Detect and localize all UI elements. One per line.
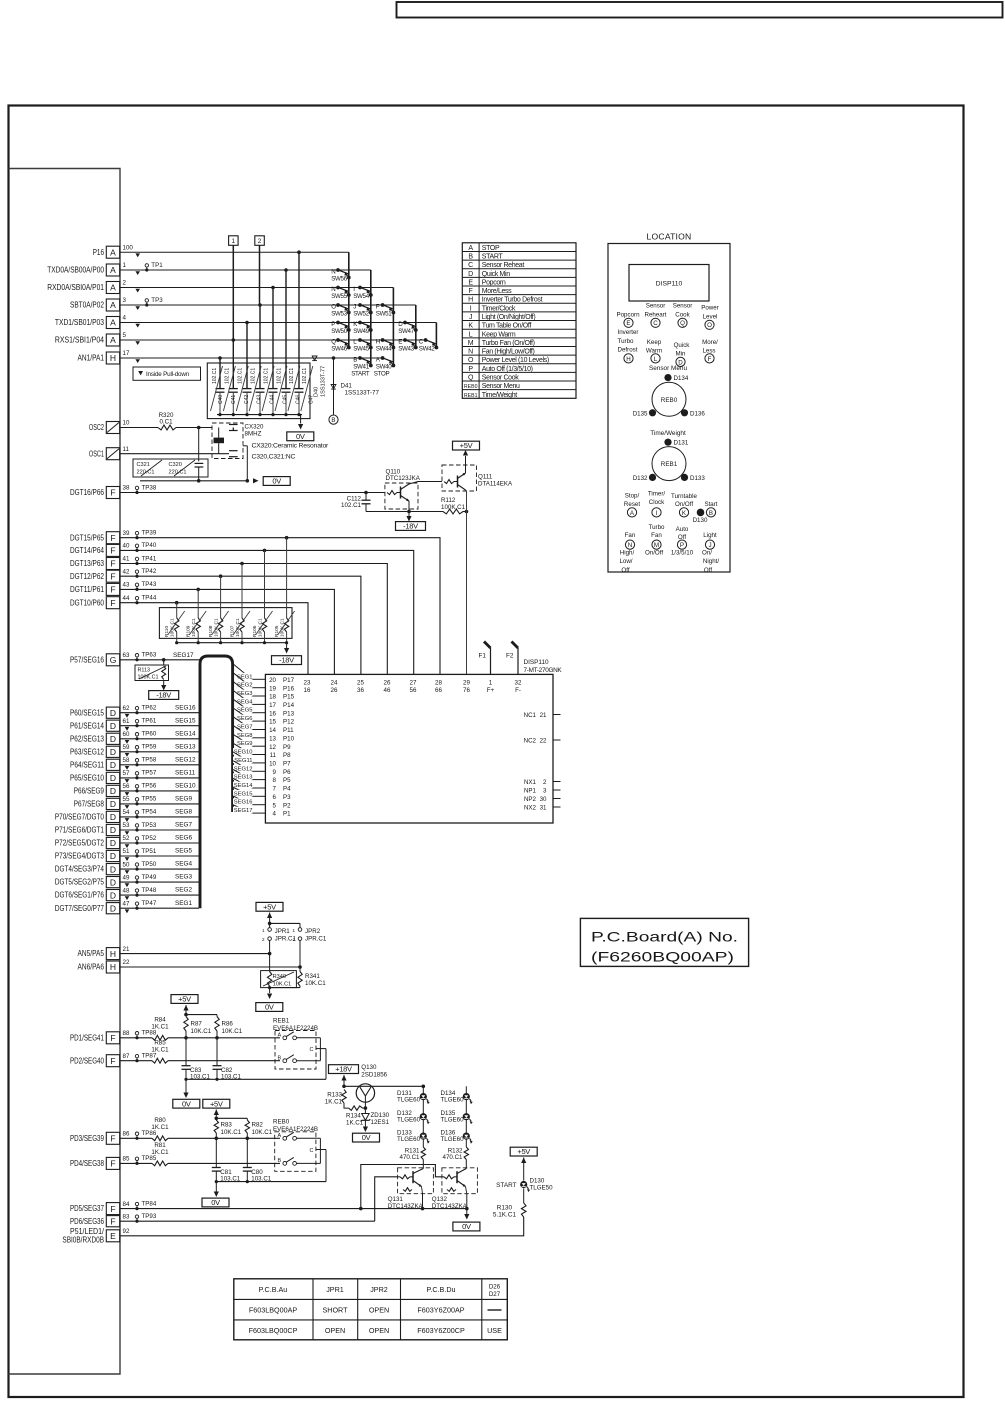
resistor R134 1K.C1 [346,1106,367,1127]
svg-text:TP51: TP51 [142,848,157,855]
svg-text:SEG15: SEG15 [175,717,196,724]
0V supply (REB0) [202,1198,229,1207]
svg-text:102.C1: 102.C1 [251,368,257,384]
svg-text:2: 2 [292,937,295,942]
svg-text:TP84: TP84 [142,1200,157,1207]
svg-text:B: B [468,254,473,261]
wire PD1 row + TP88 + R84 [120,1017,280,1041]
wire oscillator ground bus [140,446,259,484]
svg-text:P73/SEG4/DGT3: P73/SEG4/DGT3 [55,852,105,861]
svg-text:R130: R130 [497,1204,513,1211]
button B Start + LED D130 [693,501,718,524]
wire SEG6 row TP52 [120,835,199,845]
svg-text:102.C1: 102.C1 [289,368,295,384]
svg-text:Q130: Q130 [361,1064,377,1071]
svg-text:0V: 0V [362,1133,371,1142]
wire SEG9 fan-out [233,734,266,747]
svg-text:1SS133T-77: 1SS133T-77 [321,366,327,397]
svg-text:P.C.B.Au: P.C.B.Au [259,1285,288,1294]
svg-text:4: 4 [273,811,277,818]
pin 38 DGT16/P66 [70,485,130,499]
resistor R320 0.C1 [158,412,176,430]
svg-text:D134: D134 [674,375,689,382]
svg-text:57: 57 [123,770,130,777]
svg-text:36: 36 [357,687,364,694]
svg-text:D: D [110,708,116,718]
svg-text:A: A [110,300,116,310]
wire SEG11 fan-out [233,752,266,764]
wire DGT10/P60 row to DISP110 grid [120,595,308,675]
svg-text:TLGE50: TLGE50 [530,1184,554,1191]
svg-text:PD3/SEG39: PD3/SEG39 [70,1134,104,1143]
svg-text:P.C.Board(A) No.: P.C.Board(A) No. [591,930,738,945]
svg-text:P57/SEG16: P57/SEG16 [70,655,104,664]
svg-text:SHORT: SHORT [322,1306,348,1315]
diode D40 1SS133T-77 [312,356,326,397]
svg-text:NC2: NC2 [524,737,537,744]
wire P00 key row + TP1 [120,262,371,367]
button J Light On/Night/Off [702,532,719,574]
button A Stop/Reset [624,492,640,517]
svg-text:TP87: TP87 [142,1053,157,1060]
svg-text:JPR2: JPR2 [370,1285,388,1294]
svg-text:SW43: SW43 [398,346,415,353]
svg-text:31: 31 [540,804,547,811]
svg-text:+5V: +5V [517,1147,530,1156]
SEG bus (thick) [200,656,233,908]
svg-text:26: 26 [331,687,338,694]
svg-text:17: 17 [269,702,276,709]
svg-text:Time/Weight: Time/Weight [482,392,517,399]
svg-text:B: B [278,1158,282,1164]
svg-text:TP88: TP88 [142,1030,157,1037]
svg-text:F: F [110,571,115,581]
svg-text:More/Less: More/Less [482,288,512,295]
pin 41 DGT13/P63 [70,556,130,570]
svg-text:12: 12 [269,744,276,751]
svg-text:Power: Power [701,305,719,312]
svg-text:C320: C320 [169,462,182,468]
svg-text:10: 10 [269,761,276,768]
switch SW42 (C) [419,338,439,353]
wire jumper feed [268,922,300,928]
svg-text:TP1: TP1 [151,262,163,269]
svg-text:M: M [468,340,474,347]
svg-text:START: START [482,254,504,261]
svg-text:63: 63 [123,652,130,659]
svg-text:D: D [110,825,116,835]
resistor R133 1K.C1 [325,1090,349,1109]
+5V supply (REB1 pull-ups) [171,995,198,1015]
svg-text:PD5/SEG37: PD5/SEG37 [70,1204,104,1213]
wire SEG12 row TP58 [120,756,199,766]
svg-text:N: N [331,269,335,276]
wire OSC2 node [120,426,212,462]
svg-text:On/Off: On/Off [675,501,693,508]
display DISP110 7-MT-270GNK [265,659,562,823]
svg-text:D: D [110,851,116,861]
pin 63 P57/SEG16 [70,652,130,666]
svg-text:L: L [353,339,357,346]
svg-text:Sensor Cook: Sensor Cook [482,375,519,382]
svg-text:D135: D135 [633,411,648,418]
svg-text:+5V: +5V [460,441,473,450]
svg-text:SEG14: SEG14 [175,730,196,737]
svg-text:Keep: Keep [647,339,662,346]
switch SW53 (O) [331,303,350,318]
svg-text:9: 9 [273,769,277,776]
svg-text:F2: F2 [506,653,514,660]
wire SEG12 fan-out [233,761,266,773]
pin 2 RXD0A/SBI0A/P01 [47,280,140,294]
svg-text:F: F [110,559,115,569]
svg-text:C: C [468,262,473,269]
button O Power Level [701,305,719,330]
svg-text:F: F [110,488,115,498]
svg-text:1SS133T-77: 1SS133T-77 [345,390,380,397]
svg-text:D: D [110,877,116,887]
svg-text:Inverter: Inverter [618,329,639,336]
svg-text:6: 6 [273,794,277,801]
svg-text:E: E [110,1231,116,1241]
svg-text:11: 11 [270,752,277,759]
svg-text:2: 2 [543,779,547,786]
svg-text:D: D [468,271,473,278]
svg-text:100K.C1: 100K.C1 [138,675,159,681]
svg-text:LOCATION: LOCATION [647,232,692,242]
svg-text:0V: 0V [462,1222,471,1231]
svg-text:P: P [468,366,473,373]
svg-text:5.1K.C1: 5.1K.C1 [493,1212,517,1219]
svg-text:ZD130: ZD130 [371,1112,390,1119]
svg-text:R86: R86 [222,1020,234,1027]
pin 57 P65/SEG10 [70,770,130,783]
svg-text:START: START [496,1182,516,1189]
svg-text:TLGE60: TLGE60 [397,1096,421,1103]
svg-text:10K.C1: 10K.C1 [252,1129,273,1136]
svg-text:Turbo: Turbo [618,338,634,345]
svg-text:0V: 0V [272,477,281,486]
svg-text:-18V: -18V [279,656,294,665]
pin 51 P73/SEG4/DGT3 [55,848,130,861]
svg-text:17: 17 [123,350,130,357]
wire Q110 collector to Q111 base [418,481,442,483]
jumper JPR1 JPR.C1 [262,928,296,954]
svg-text:D: D [110,838,116,848]
svg-text:I: I [353,286,355,293]
switch SW44 (H) [376,338,396,353]
svg-text:P8: P8 [283,752,291,759]
svg-text:K: K [682,510,687,517]
pin 10 OSC2 [89,420,130,434]
wire SEG11 row TP57 [120,770,199,780]
svg-text:P11: P11 [283,727,294,734]
svg-text:R106: R106 [252,625,258,637]
svg-text:Quick Min: Quick Min [482,271,510,278]
svg-text:1: 1 [232,238,236,245]
resistor R112 100K.C1 [441,497,466,514]
svg-text:J: J [353,304,356,311]
svg-text:46: 46 [384,687,391,694]
svg-text:E: E [468,279,473,286]
svg-text:D41: D41 [341,383,353,390]
svg-text:A: A [110,335,116,345]
svg-text:TP39: TP39 [142,530,157,537]
wire SEG8 fan-out [233,725,266,739]
capacitor C82 103.C1 [213,1038,242,1081]
svg-text:Fan (High/Low/Off): Fan (High/Low/Off) [482,349,535,356]
svg-text:TP40: TP40 [142,542,157,549]
svg-text:A: A [110,265,116,275]
-18V supply (Q110) [396,522,426,531]
svg-text:P: P [331,321,335,328]
svg-text:SEG3: SEG3 [175,874,192,881]
svg-text:52: 52 [123,835,130,842]
svg-text:SEG13: SEG13 [175,743,196,750]
svg-text:SW54: SW54 [353,293,370,300]
0V supply (cap array) [287,432,314,441]
svg-text:Q: Q [468,375,474,382]
svg-text:D40: D40 [314,387,320,397]
button H Inverter Turbo Defrost [618,329,639,363]
svg-text:TP86: TP86 [142,1130,157,1137]
svg-text:SW40: SW40 [376,364,393,371]
wire PD6 row + TP93 [120,1177,398,1223]
transistor Q131 DTC143ZKA [388,1168,434,1210]
svg-text:SEG14: SEG14 [234,783,253,789]
pin 59 P63/SEG12 [70,744,130,757]
svg-text:TP50: TP50 [142,861,157,868]
wire SEG3 fan-out [233,681,266,697]
svg-text:SEG15: SEG15 [234,791,253,797]
svg-text:D136: D136 [690,411,705,418]
svg-text:PD6/SEG36: PD6/SEG36 [70,1217,104,1226]
wire SEG13 row TP59 [120,743,199,753]
svg-text:12ES1: 12ES1 [371,1119,390,1126]
svg-text:43: 43 [123,582,130,589]
svg-text:Level: Level [703,313,718,320]
pin 21 AN5/PA5 [78,946,130,960]
svg-text:PD1/SEG41: PD1/SEG41 [70,1033,104,1042]
svg-text:Start: Start [704,501,717,508]
svg-text:20: 20 [269,677,276,684]
svg-text:R108: R108 [208,625,214,637]
pin 52 P72/SEG5/DGT2 [55,835,130,848]
svg-text:OSC1: OSC1 [89,449,104,458]
svg-text:E: E [626,320,630,327]
svg-text:SEG9: SEG9 [175,796,192,803]
svg-text:DGT4/SEG3/P74: DGT4/SEG3/P74 [55,865,105,874]
svg-text:Low/: Low/ [619,558,632,565]
wire SEG13 fan-out [233,769,266,780]
wire SEG9 row TP55 [120,796,199,806]
svg-text:TP44: TP44 [142,595,157,602]
resistor R130 5.1K.C1 [493,1188,526,1218]
svg-text:10K.C1: 10K.C1 [305,980,326,987]
svg-text:DGT6/SEG1/P76: DGT6/SEG1/P76 [55,891,105,900]
svg-text:P4: P4 [283,786,291,793]
svg-text:OSC2: OSC2 [89,423,104,432]
resistor R86 10K.C1 [215,1017,243,1038]
svg-text:SW41: SW41 [353,364,370,371]
svg-text:P12: P12 [283,719,295,726]
svg-text:H: H [110,353,116,363]
resistor array R105-R110 100K.C1 (DGT pull-down) [159,538,294,645]
svg-text:102.C1: 102.C1 [238,368,244,384]
svg-text:NP1: NP1 [524,787,537,794]
svg-text:1K.C1: 1K.C1 [151,1023,169,1030]
svg-text:Time/Weight: Time/Weight [650,430,686,437]
svg-text:62: 62 [123,705,130,712]
svg-text:P9: P9 [283,744,291,751]
svg-text:TP59: TP59 [142,744,157,751]
svg-text:(F6260BQ00AP): (F6260BQ00AP) [591,950,734,965]
svg-text:OPEN: OPEN [369,1326,389,1335]
svg-text:SW47: SW47 [398,328,415,335]
pin 43 DGT11/P61 [70,582,130,596]
button E Popcorn [616,311,640,327]
svg-text:SEG11: SEG11 [175,770,196,777]
svg-text:C40: C40 [218,395,224,404]
wire SEG3 row TP49 [120,874,199,884]
svg-text:14: 14 [269,727,276,734]
switch SW49 (K) [353,321,372,336]
svg-text:R87: R87 [191,1020,203,1027]
svg-text:High/: High/ [620,549,635,556]
svg-text:A: A [278,1133,282,1139]
svg-text:22: 22 [123,959,130,966]
rotary encoder REB1 EVE6A1F2224B [273,1017,326,1079]
wire Q111 collector column to DISP110 pin 29/76 [463,491,468,674]
svg-text:SEG16: SEG16 [234,800,253,806]
svg-text:220.C1: 220.C1 [169,469,187,475]
button L Keep Warm [646,339,662,363]
svg-text:JPR1: JPR1 [326,1285,344,1294]
svg-text:A: A [110,283,116,293]
pin 100 P16 [93,244,140,258]
pin 86 PD3/SEG39 [70,1131,130,1145]
svg-text:2: 2 [262,937,265,942]
svg-text:P70/SEG7/DGT0: P70/SEG7/DGT0 [55,813,105,822]
svg-text:P13: P13 [283,710,295,717]
svg-text:SEG4: SEG4 [237,699,253,705]
svg-text:DGT10/P60: DGT10/P60 [70,598,104,607]
svg-text:DISP110: DISP110 [524,659,550,666]
svg-text:K: K [468,323,473,330]
svg-text:TP38: TP38 [142,484,157,491]
0V supply (ZD130) [353,1133,380,1142]
resistor R132 470.C1 [443,1147,469,1169]
svg-text:H: H [626,356,630,363]
svg-text:+5V: +5V [178,995,191,1004]
-18V supply (R113) [149,691,179,700]
svg-text:102.C1: 102.C1 [341,502,362,509]
resistor R340 10K.C1 (NC) [261,954,297,988]
svg-text:1K.C1: 1K.C1 [325,1099,343,1106]
svg-text:SW50: SW50 [331,328,348,335]
wire SEG14 row TP60 [120,730,199,740]
wire SEG16 row TP62 [120,704,199,714]
svg-text:C41: C41 [231,395,237,404]
resistor R82 10K.C1 [245,1120,273,1138]
0V supply (REB1) [173,1099,200,1108]
pin 42 DGT12/P62 [70,568,130,582]
svg-text:F+: F+ [487,687,495,694]
svg-text:F1: F1 [479,653,487,660]
svg-text:A: A [278,1032,282,1038]
svg-text:Timer/: Timer/ [648,490,666,497]
pin 58 P64/SEG11 [70,757,130,770]
svg-text:F: F [376,304,380,311]
svg-text:SW55: SW55 [331,293,348,300]
LED D132 TLGE60 [397,1110,430,1124]
svg-text:TXD1/SB01/P03: TXD1/SB01/P03 [55,318,105,327]
svg-text:REB1: REB1 [464,393,478,399]
svg-text:F: F [110,1134,115,1144]
svg-text:Turntable: Turntable [671,493,697,500]
svg-text:B: B [353,357,357,364]
svg-text:470.C1: 470.C1 [443,1154,464,1161]
svg-text:48: 48 [123,887,130,894]
LED D134 TLGE60 [441,1090,473,1104]
svg-text:USE: USE [487,1326,502,1335]
svg-text:18: 18 [269,694,276,701]
wire pull-up feed REB1 [184,1013,217,1017]
svg-text:J: J [708,542,711,549]
svg-text:23: 23 [304,680,311,687]
pin 61 P61/SEG14 [70,718,130,731]
wire DGT12/P62 row to DISP110 grid [120,568,361,674]
svg-text:OPEN: OPEN [369,1306,389,1315]
svg-text:84: 84 [123,1201,130,1208]
svg-text:P10: P10 [283,735,295,742]
svg-text:7: 7 [273,786,277,793]
svg-text:C321: C321 [137,462,150,468]
svg-text:NX2: NX2 [524,804,537,811]
svg-text:TP42: TP42 [142,568,157,575]
label Sensor Menu + LED D134 [649,365,689,382]
switch SW52 (J) [353,303,372,318]
svg-text:P63/SEG12: P63/SEG12 [70,747,104,756]
pin 53 P71/SEG6/DGT1 [55,822,130,835]
svg-text:D: D [110,721,116,731]
svg-text:OPEN: OPEN [325,1326,345,1335]
svg-text:P15: P15 [283,694,295,701]
svg-text:55: 55 [123,796,130,803]
pin 40 DGT14/P64 [70,543,130,557]
wire SEG17 fan-out [233,805,266,815]
svg-text:P7: P7 [283,761,291,768]
svg-text:SEG8: SEG8 [175,809,192,816]
svg-text:TP54: TP54 [142,809,157,816]
0V supply (R340) [256,1003,283,1012]
switch SW43 (E) [398,338,417,353]
wire REB0 common ground bus [214,1180,326,1197]
svg-text:TP3: TP3 [151,297,163,304]
capacitor C80 103.C1 [243,1138,272,1182]
svg-text:53: 53 [123,822,130,829]
svg-text:N: N [628,542,632,549]
svg-text:C: C [310,1047,314,1053]
svg-text:44: 44 [123,595,130,602]
svg-text:CX320:Ceramic Resonator: CX320:Ceramic Resonator [252,442,330,449]
wire SEG15 row TP61 [120,717,199,727]
wire SEG6 fan-out [233,708,266,723]
wire PD3 row + TP86 + R80 [120,1117,280,1141]
switch SW51 (F) [376,303,396,318]
svg-text:D: D [110,773,116,783]
P.C.Board(A) number box [580,918,748,966]
